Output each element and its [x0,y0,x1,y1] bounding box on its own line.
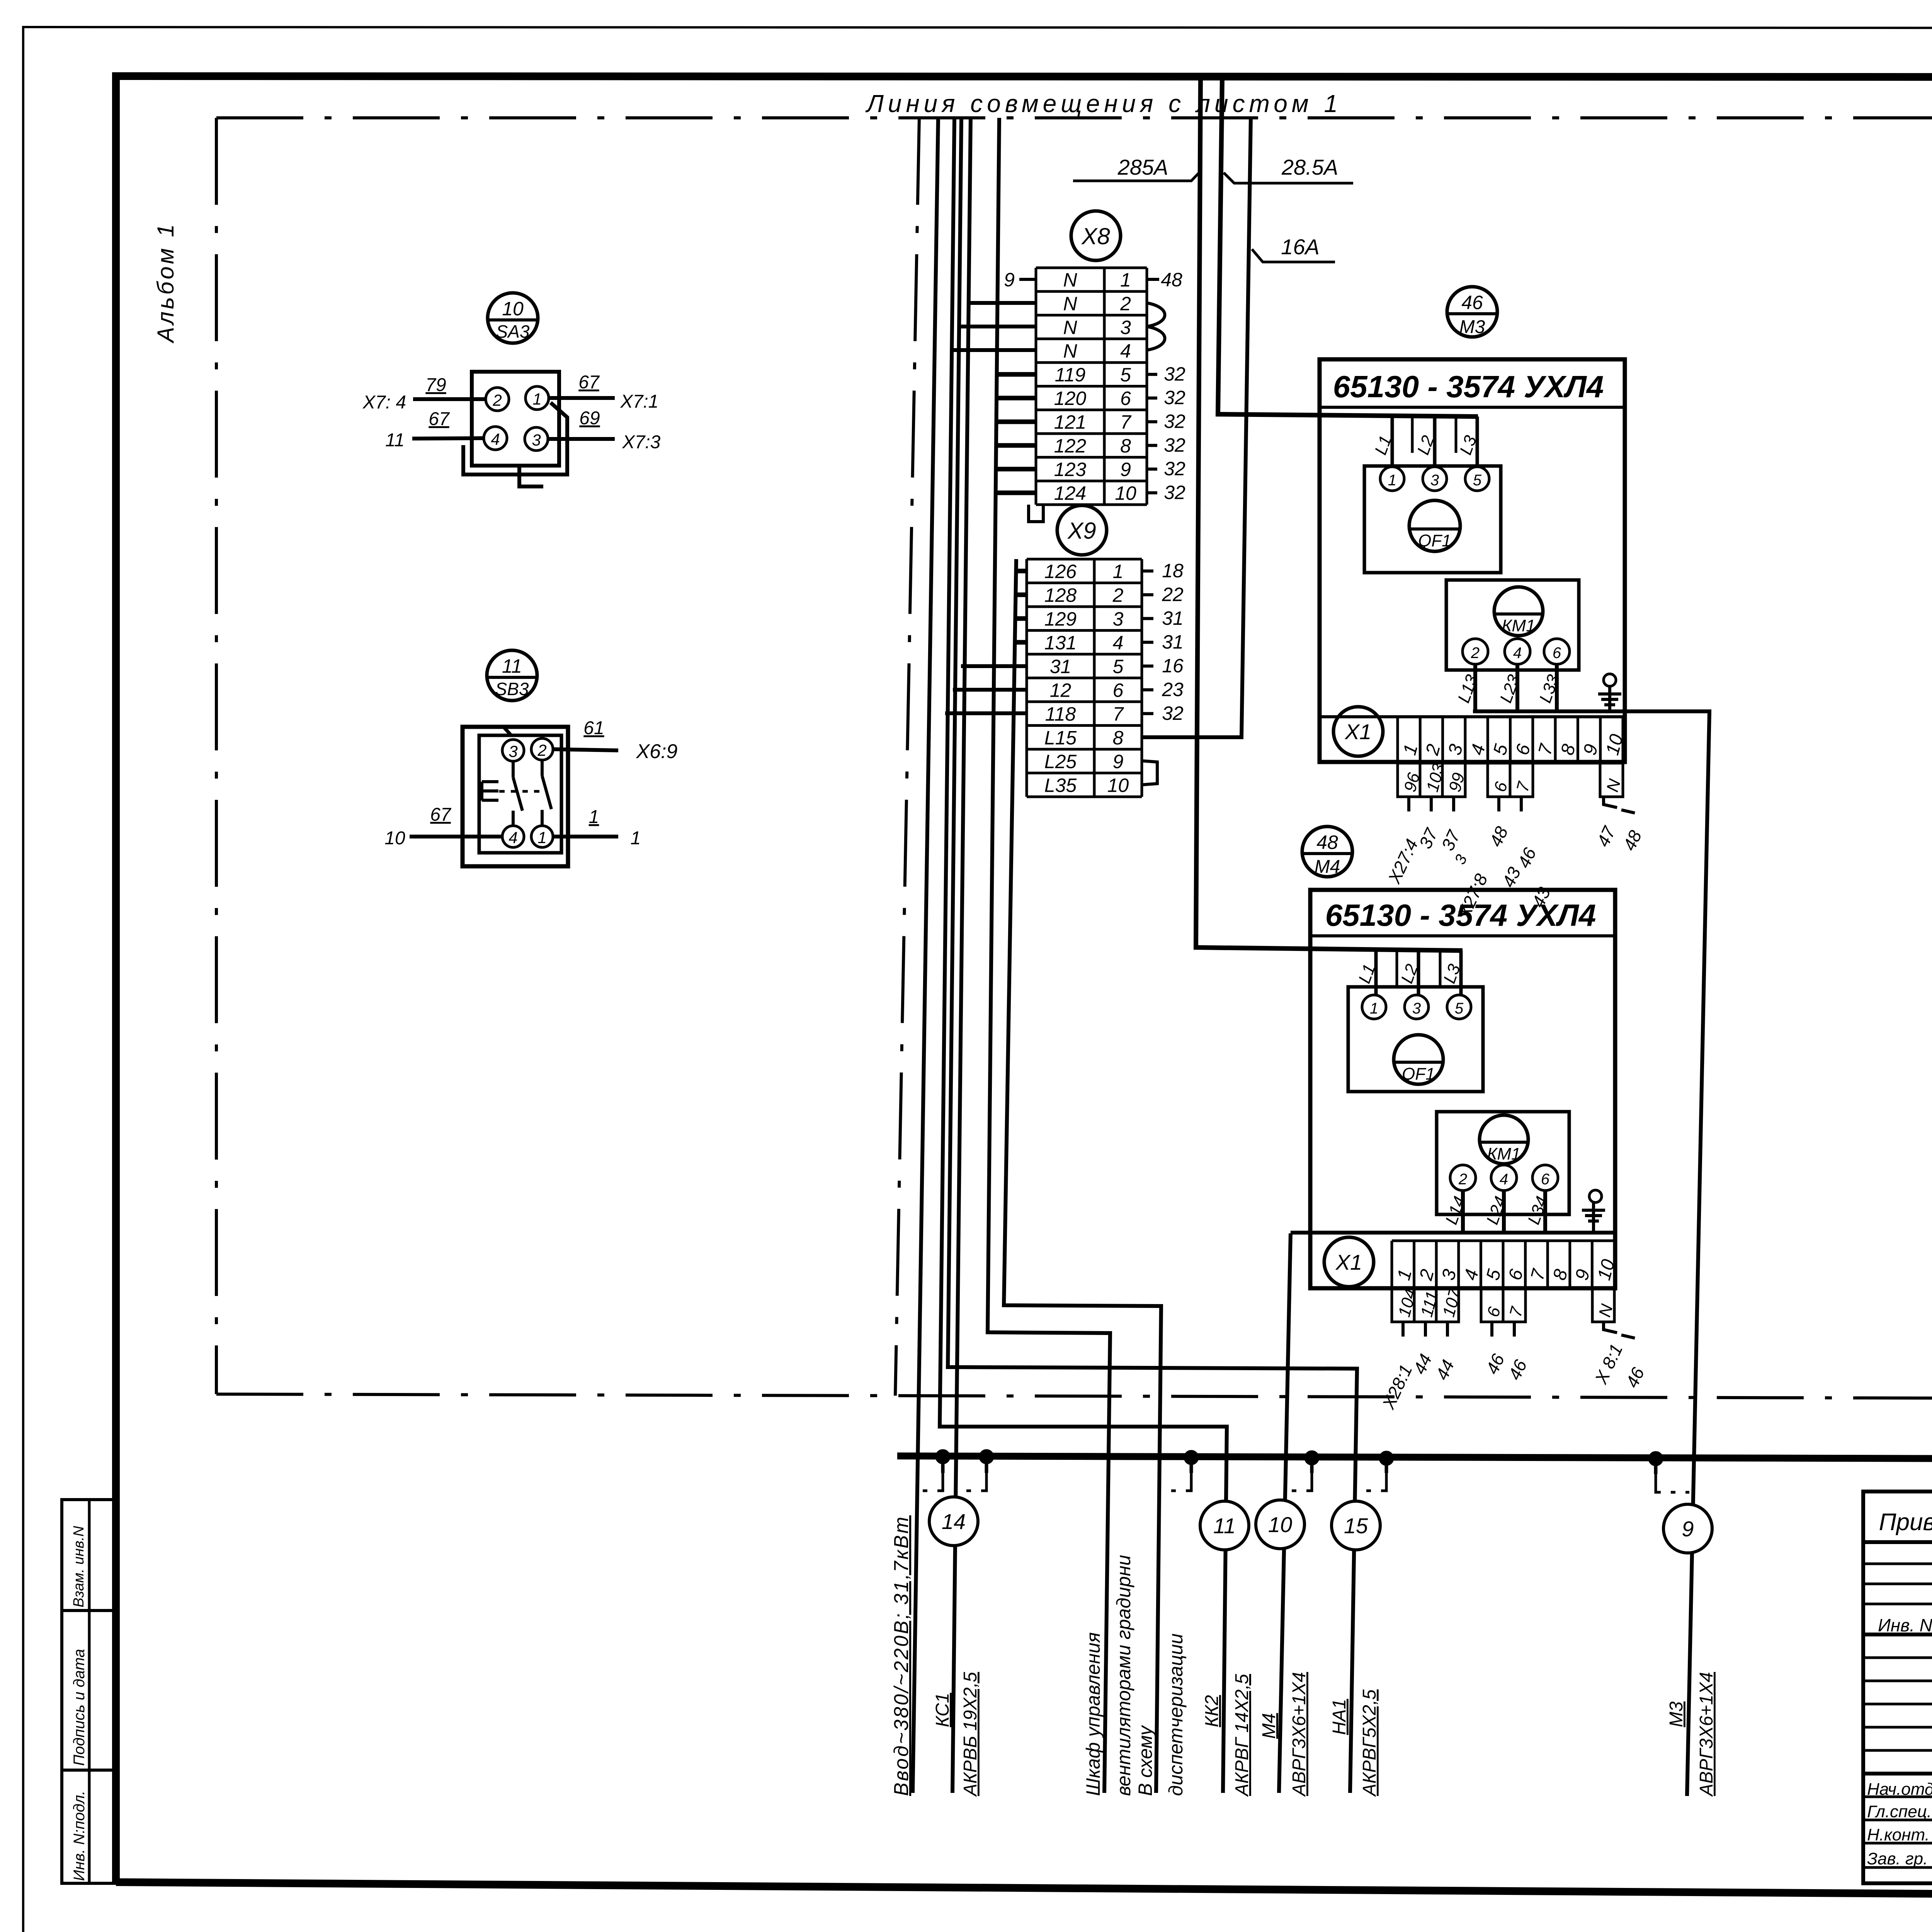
KM1 M3 pin 4 [1505,639,1530,664]
KM1 M4 pin 4 [1491,1165,1517,1190]
svg-text:65130 - 3574 УХЛ4: 65130 - 3574 УХЛ4 [1325,898,1596,932]
cable circle 10 [1256,1500,1304,1549]
svg-text:3: 3 [1113,608,1124,630]
svg-text:48: 48 [1161,269,1182,291]
cable circle 11 [1200,1501,1249,1550]
button SB3 pin 4 [502,826,524,847]
wire feed 285A to M4 box [1196,78,1463,951]
svg-text:10: 10 [1268,1512,1292,1537]
svg-text:16А: 16А [1281,235,1320,259]
button SB3 pin 2 [531,738,553,760]
svg-text:5: 5 [1455,1000,1464,1017]
svg-text:L25: L25 [1044,751,1077,772]
label L24 [1483,1194,1510,1227]
svg-text:N: N [1063,340,1077,362]
junction dot on bus [935,1449,950,1464]
svg-text:32: 32 [1164,458,1185,480]
label X7:3 [622,432,661,452]
contactor KM1 (M3) box [1446,580,1579,670]
switch SA3 body [472,372,559,466]
wire SA3 bottom stub [519,466,543,486]
cable label КС1 [932,1693,953,1727]
wire stub X8:2 [967,301,1036,305]
cable label АКРВГ 14Х2,5 [1232,1674,1252,1797]
cable label В схему [1134,1725,1156,1796]
svg-text:АКРВБ 19Х2,5: АКРВБ 19Х2,5 [960,1672,981,1797]
wire L14 [1461,1190,1465,1233]
button SB3 pin 1 [531,826,553,847]
wire 10 to SB3:4 [410,835,502,838]
wire feed 28.5A to M3 box [1218,78,1478,417]
svg-text:X1: X1 [1335,1250,1362,1274]
svg-text:61: 61 [583,718,604,738]
svg-text:32: 32 [1164,434,1185,456]
svg-text:9: 9 [1120,459,1131,480]
cable label АВРГ3Х6+1Х4 (М3) [1696,1672,1717,1797]
svg-text:3: 3 [1120,316,1131,338]
svg-text:2: 2 [492,391,502,409]
M4 phase stubs L1 L2 L3 [1355,951,1464,995]
X1 M4 tag box N [1592,1288,1617,1322]
svg-text:Инв. N:: Инв. N: [1878,1615,1932,1635]
svg-text:L35: L35 [1044,774,1077,796]
button SB3 pin 3 [502,740,524,761]
label 61 [583,718,604,738]
cable label АКРВБ 19Х2,5 [960,1672,981,1797]
svg-text:В схему: В схему [1134,1725,1156,1796]
svg-text:67: 67 [430,804,452,825]
svg-text:Привязан: Привязан [1879,1509,1932,1536]
terminal strip X1 cells (M3) [1398,717,1627,763]
M3 phase stubs L1 L2 L3 [1371,417,1480,467]
cable label М3 [1666,1701,1687,1727]
svg-text:2: 2 [1120,293,1131,315]
wire trunk X8 to cabinet cable [988,118,1110,1793]
svg-text:2: 2 [537,741,546,759]
wire trunk X9 to dispatch cable [1004,559,1161,1793]
svg-text:4: 4 [1500,1171,1508,1188]
svg-text:X7:3: X7:3 [622,432,661,452]
svg-text:32: 32 [1164,387,1185,408]
wire SA3:3 to X7:3 [548,437,615,441]
junction dot on bus [1379,1451,1394,1466]
vertical text Альбом 1 [153,222,179,344]
label X7:4 [362,392,406,413]
svg-text:НА1: НА1 [1329,1699,1350,1735]
svg-text:АКРВГ 14Х2,5: АКРВГ 14Х2,5 [1232,1674,1252,1797]
svg-text:SA3: SA3 [496,321,530,342]
cable circle 9 [1663,1504,1712,1553]
wire SA3:1 to X7:1 [549,396,615,400]
svg-text:КС1: КС1 [932,1693,953,1727]
wire SA3 wrap-around [463,403,567,474]
cable armour bond hook [1385,1458,1388,1473]
wire stub X9:5 [961,664,1027,668]
ground symbol (M4) [1582,1190,1605,1232]
cable label Ввод [890,1515,913,1796]
svg-text:6: 6 [1120,388,1131,409]
label L23 [1496,672,1524,705]
label X8 row1 left 9 [1004,269,1015,291]
breaker QF1 symbol (M3) [1409,500,1460,551]
svg-text:вентиляторами градирни: вентиляторами градирни [1113,1555,1134,1796]
merge border bottom [216,1394,1932,1400]
QF1 M4 pin 5 [1447,995,1471,1019]
svg-text:69: 69 [579,408,600,429]
junction dot on bus [1184,1450,1199,1465]
switch SA3 pin 2 [486,388,509,411]
wire SB3:1 out [553,835,618,838]
label L33 [1536,672,1563,705]
svg-text:3: 3 [1412,1000,1421,1017]
svg-text:3: 3 [1430,472,1439,489]
X1 M4 tag ticks [1403,1322,1635,1338]
svg-text:Х8: Х8 [1081,223,1110,249]
X1 circle (M4) [1324,1237,1374,1287]
wire trunk Ввод 380V (P1) [913,118,938,1793]
svg-text:126: 126 [1044,561,1077,582]
connector X8 tag circle [1071,211,1121,260]
svg-text:4: 4 [1113,632,1124,653]
svg-text:Инв. N:подл.: Инв. N:подл. [71,1791,88,1881]
breaker QF1 symbol (M4) [1394,1035,1443,1084]
cable label АВРГ3Х6+1Х4 (М4) [1289,1672,1310,1797]
svg-text:КМ1: КМ1 [1487,1145,1520,1163]
svg-text:131: 131 [1044,632,1077,653]
svg-text:диспетчеризации: диспетчеризации [1165,1633,1187,1796]
svg-text:6: 6 [1553,645,1561,662]
svg-text:Альбом 1: Альбом 1 [153,222,179,344]
X1 M3 tag boxes 6/7 [1488,763,1534,797]
svg-text:16: 16 [1162,655,1184,677]
svg-text:67: 67 [578,372,600,393]
svg-text:15: 15 [1344,1514,1368,1538]
svg-text:22: 22 [1162,583,1184,605]
button SB3 body outer [463,727,568,866]
left stamp strip [62,1500,117,1883]
svg-text:31: 31 [1162,607,1184,629]
labels X8 rows 5-10 right 32 [1147,363,1185,503]
jumper X8 rows 3-4 [1147,327,1165,350]
svg-text:М3: М3 [1666,1701,1687,1727]
wire stub X9:6 [953,688,1027,692]
svg-text:124: 124 [1054,482,1086,504]
svg-text:65130 - 3574 УХЛ4: 65130 - 3574 УХЛ4 [1333,369,1604,404]
svg-text:3: 3 [532,431,541,449]
svg-text:1: 1 [1370,1000,1378,1017]
cable label М4 [1259,1713,1279,1739]
QF1 M3 pin 3 [1423,467,1447,491]
cable armour bond hook [1310,1458,1314,1473]
switch SA3 tag circle 10/SA3 [488,293,538,343]
X1 M3 tag box N [1600,763,1624,797]
svg-text:4: 4 [509,828,517,847]
connector X9 table [1027,559,1142,797]
KM1 M4 pin 2 [1450,1165,1476,1190]
junction dot on bus [1304,1451,1319,1465]
svg-text:10: 10 [384,828,405,849]
svg-text:79: 79 [425,375,446,395]
label L13 [1454,672,1481,705]
contactor KM1 symbol (M4) [1480,1115,1528,1164]
cable label Шкаф управления [1082,1632,1104,1796]
wire X7:4 to SA3:2 [413,397,486,401]
label 79 [425,375,446,395]
svg-text:М4: М4 [1259,1713,1279,1739]
ground symbol (M3) [1598,674,1621,711]
label L34 [1524,1194,1551,1227]
tick X8 row1 left [1019,278,1036,281]
svg-text:1: 1 [532,390,541,408]
svg-text:9: 9 [1682,1517,1694,1541]
jumper X9 rows 9-10 [1142,761,1157,785]
svg-text:КМ1: КМ1 [1502,616,1535,635]
svg-text:67: 67 [429,409,450,429]
svg-text:N: N [1063,293,1077,315]
svg-text:N: N [1063,316,1077,338]
label 285A [1117,155,1168,179]
label 1 [589,807,599,827]
svg-text:X7: 4: X7: 4 [362,392,406,413]
label 67 [429,409,450,429]
labels X9 rows 1-7 right [1142,560,1184,724]
svg-text:8: 8 [1120,435,1131,457]
wire L24 [1502,1190,1506,1233]
svg-text:М4: М4 [1315,857,1340,877]
wire trunk KK2 (P2) [940,118,1227,1793]
leader 16A [1252,249,1335,262]
cable armour bond hook [1190,1458,1193,1473]
svg-text:32: 32 [1164,481,1185,503]
QF1 M3 pin 1 [1380,467,1404,491]
svg-text:32: 32 [1162,702,1184,724]
switch SA3 pin 1 [526,386,549,410]
KM1 M4 pin 6 [1532,1165,1558,1190]
wire stub X8:4 [951,348,1036,352]
connector X9 tag circle [1057,505,1107,555]
motor M4 enclosure 65130-3574 УХЛ4 [1310,890,1615,1288]
svg-text:Нач.отд.: Нач.отд. [1867,1780,1932,1799]
svg-text:1: 1 [537,828,546,847]
svg-text:1: 1 [1388,472,1396,489]
svg-text:28.5А: 28.5А [1281,155,1338,179]
contactor KM1 (M4) box [1437,1112,1569,1214]
svg-text:1: 1 [1113,561,1124,582]
svg-text:4: 4 [491,430,500,448]
svg-text:2: 2 [1458,1171,1467,1188]
svg-text:123: 123 [1054,459,1087,480]
svg-text:8: 8 [1113,727,1124,748]
svg-text:129: 129 [1044,608,1077,630]
svg-text:46: 46 [1461,292,1483,313]
svg-text:SB3: SB3 [495,679,529,699]
cable circle 14 [929,1497,978,1546]
svg-text:12: 12 [1050,679,1071,701]
svg-text:31: 31 [1162,631,1184,653]
wire 11 to SA3:4 [412,438,484,439]
X1 M3 tag boxes 96/103/99 [1398,761,1468,797]
circuit breaker QF1 (M3) box [1364,466,1501,573]
svg-text:5: 5 [1120,364,1131,386]
label 11 [385,430,405,451]
wire stubs X8 rows 5-10 to trunk [996,374,1036,493]
svg-text:285А: 285А [1117,155,1168,179]
contactor KM1 symbol (M3) [1494,587,1543,636]
svg-text:QF1: QF1 [1418,531,1451,550]
stamp signatures rows [1867,1780,1932,1872]
cable label КК2 [1202,1695,1222,1727]
label 16A [1281,235,1320,259]
X1 M3 tag ticks [1409,797,1635,813]
svg-text:1: 1 [631,828,641,849]
label X6:9 [636,740,678,763]
junction dot on bus [1648,1451,1663,1466]
svg-text:10: 10 [1115,482,1136,504]
cable label АКРВГ5Х2,5 [1359,1689,1380,1797]
svg-text:7: 7 [1120,411,1132,433]
svg-text:1: 1 [1120,269,1131,291]
X1 M3 destination labels [1384,823,1646,922]
KM1 M3 pin 2 [1463,639,1488,664]
svg-text:АКРВГ5Х2,5: АКРВГ5Х2,5 [1359,1689,1380,1797]
wire cable М4 from X1 row [1279,1233,1291,1793]
wire feed 16A to X9:8 [1142,118,1251,737]
svg-text:14: 14 [942,1509,966,1534]
svg-text:2: 2 [1471,645,1480,662]
PE bus [897,1456,1932,1460]
svg-text:Шкаф управления: Шкаф управления [1082,1632,1104,1796]
svg-text:11: 11 [1213,1514,1236,1538]
svg-text:6: 6 [1541,1171,1550,1188]
cable label НА1 [1329,1699,1350,1735]
jumper X8 rows 2-3 [1147,303,1165,327]
leader 285A [1073,171,1201,181]
svg-text:11: 11 [385,430,405,451]
label X7:1 [620,391,659,412]
motor M3 enclosure 65130-3574 УХЛ4 [1320,359,1625,762]
terminal strip X1 cells (M4) [1392,1241,1619,1288]
svg-text:3: 3 [509,742,517,760]
svg-text:32: 32 [1164,410,1185,432]
svg-text:120: 120 [1054,388,1087,409]
wire L33 [1555,664,1559,711]
wire trunk HA1 (P3) [948,118,1357,1793]
svg-text:L15: L15 [1044,727,1077,748]
X1 M4 tag boxes 6/7 [1481,1288,1527,1322]
terminal row X1 (M3) [1320,715,1625,718]
svg-text:Зав. гр.: Зав. гр. [1867,1849,1928,1868]
svg-text:128: 128 [1044,584,1077,606]
motor M4 tag circle 48/М4 [1302,827,1352,877]
cable label диспетчеризации [1165,1633,1187,1796]
terminal row X1 (M4) top line [1291,1231,1615,1235]
svg-text:Взам. инв.N: Взам. инв.N [71,1526,87,1607]
wire L34 [1543,1190,1547,1233]
svg-text:5: 5 [1473,472,1482,489]
svg-text:31: 31 [1050,656,1071,677]
label 67 [430,804,452,825]
svg-text:N: N [1063,269,1077,291]
switch SA3 pin 3 [525,427,548,451]
svg-text:АВРГ3Х6+1Х4: АВРГ3Х6+1Х4 [1696,1672,1717,1797]
svg-text:Х9: Х9 [1067,518,1096,544]
svg-text:5: 5 [1113,656,1124,677]
label L14 [1442,1194,1469,1227]
merge divider dash-dot vertical [895,118,919,1396]
svg-text:Линия совмещения с листом: Линия совмещения с листом 1 [865,90,1342,117]
svg-text:КК2: КК2 [1202,1695,1222,1727]
wire stub X9:7 [945,711,1027,715]
connector X8 table [1036,268,1147,505]
wire L13 [1473,664,1477,711]
svg-text:32: 32 [1164,363,1185,385]
wire stub X8:3 [958,325,1036,328]
merge border left [215,118,218,1394]
svg-text:Подпись и дата: Подпись и дата [71,1649,88,1766]
svg-text:X1: X1 [1344,719,1372,744]
KM1 M3 pin 6 [1544,639,1570,664]
X1 M4 destination labels [1378,1341,1648,1412]
cable label вентиляторами градирни [1113,1555,1134,1796]
circuit breaker QF1 (M4) box [1348,987,1483,1092]
svg-text:4: 4 [1120,340,1131,362]
svg-text:QF1: QF1 [1402,1065,1435,1083]
merge border label sheet 1 [865,90,1342,117]
svg-text:X7:1: X7:1 [620,391,659,412]
cable circle 15 [1332,1501,1380,1550]
label 28.5A [1281,155,1338,179]
svg-text:23: 23 [1162,679,1184,700]
svg-text:118: 118 [1045,703,1076,725]
svg-text:Ввод~380/~220В; 31,7кВт: Ввод~380/~220В; 31,7кВт [890,1515,913,1796]
cable armour bond hook [941,1457,945,1473]
svg-text:6: 6 [1113,679,1124,701]
bracket under X8 table [1029,505,1043,522]
motor M3 tag circle 46/М3 [1447,287,1497,337]
X1 M4 tag boxes 104/111/107 [1392,1286,1465,1322]
junction dot on bus [979,1449,994,1464]
QF1 M4 pin 3 [1405,995,1429,1019]
cable armour bond hook [1654,1459,1658,1474]
svg-text:АВРГ3Х6+1Х4: АВРГ3Х6+1Х4 [1289,1672,1310,1797]
svg-text:2: 2 [1112,584,1124,606]
button SB3 tag circle 11/SB3 [487,650,537,701]
svg-text:48: 48 [1316,832,1338,853]
wire M3 PE collector to cable М3 [1473,711,1709,1796]
label 1 [631,828,641,849]
svg-text:М3: М3 [1459,317,1485,337]
wire trunk KC1 (P4) [952,118,971,1793]
wire L23 [1515,664,1519,711]
svg-text:4: 4 [1513,645,1522,662]
X1 circle (M3) [1333,707,1383,756]
label 69 [579,408,600,429]
svg-text:1: 1 [589,807,599,827]
QF1 M4 pin 1 [1362,995,1386,1019]
stamp table Привязан [1863,1492,1932,1883]
svg-text:10: 10 [1107,774,1129,796]
svg-text:Н.конт.: Н.конт. [1867,1825,1930,1844]
label 10 [384,828,405,849]
svg-text:18: 18 [1162,560,1184,582]
cable armour bond hook [985,1457,988,1473]
svg-text:Гл.спец.: Гл.спец. [1867,1802,1932,1821]
svg-text:9: 9 [1004,269,1015,291]
button SB3 body inner [479,726,561,853]
switch SA3 pin 4 [484,427,507,450]
button SB3 contact mechanism [482,760,551,826]
leader 28.5A [1224,173,1353,183]
